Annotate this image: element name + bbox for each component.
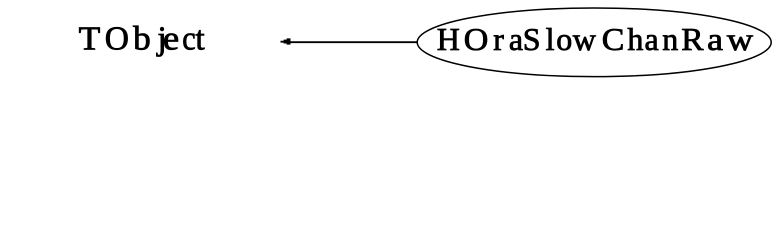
derived class ellipse HOraSlowChanRaw — [417, 8, 771, 77]
svg-text:n: n — [662, 21, 678, 57]
svg-text:l: l — [546, 21, 555, 57]
svg-text:R: R — [681, 21, 704, 57]
svg-text:o: o — [556, 21, 572, 57]
svg-text:O: O — [105, 21, 129, 58]
svg-text:T: T — [79, 21, 101, 58]
svg-text:a: a — [509, 21, 523, 57]
svg-text:b: b — [133, 21, 151, 58]
svg-text:r: r — [493, 21, 504, 57]
svg-text:H: H — [437, 21, 460, 57]
svg-text:e: e — [163, 21, 179, 58]
svg-text:w: w — [727, 21, 753, 57]
inheritance arrow wire — [289, 41, 417, 43]
svg-text:t: t — [195, 21, 205, 58]
base class label TObject — [79, 21, 206, 58]
svg-text:w: w — [573, 21, 596, 57]
svg-text:a: a — [707, 21, 723, 57]
derived class label HOraSlowChanRaw — [437, 21, 753, 57]
svg-text:C: C — [602, 21, 625, 57]
svg-text:h: h — [627, 21, 643, 57]
svg-text:S: S — [523, 21, 541, 57]
arrowhead pointing to TObject — [281, 38, 291, 44]
svg-text:O: O — [464, 21, 489, 57]
svg-text:c: c — [182, 21, 195, 58]
svg-text:a: a — [645, 21, 659, 57]
